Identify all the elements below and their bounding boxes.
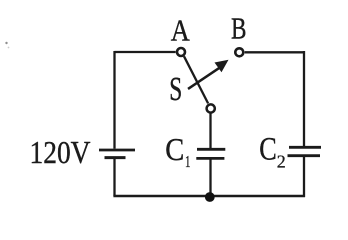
svg-text:120V: 120V bbox=[30, 134, 91, 170]
svg-text:1: 1 bbox=[185, 152, 191, 171]
svg-text:B: B bbox=[231, 11, 247, 46]
svg-text:A: A bbox=[171, 12, 191, 47]
svg-text:C: C bbox=[259, 132, 277, 168]
svg-text:2: 2 bbox=[277, 151, 286, 171]
svg-text:C: C bbox=[165, 132, 184, 167]
svg-text:S: S bbox=[169, 71, 182, 108]
